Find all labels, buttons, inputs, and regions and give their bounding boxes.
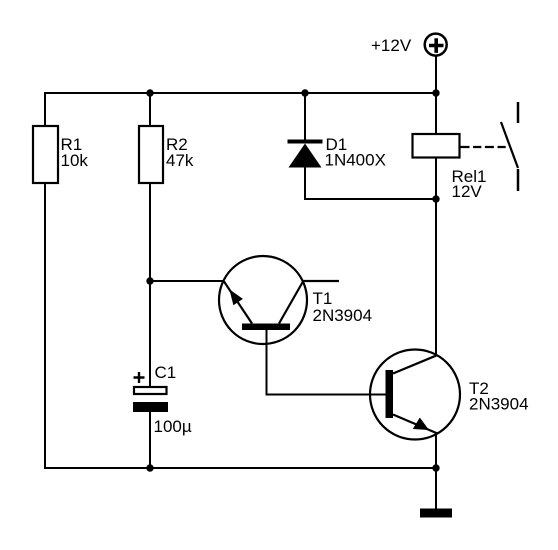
wire T2 emitter to ground	[435, 433, 437, 509]
wire R1 bottom to bottom-left corner	[44, 184, 46, 469]
switch blade	[501, 122, 518, 168]
svg-text:47k: 47k	[166, 151, 194, 170]
wire left branch down through R1 to bottom bus	[44, 92, 46, 126]
svg-text:10k: 10k	[61, 151, 89, 170]
wire T1 base to T2 base	[267, 330, 387, 395]
wire top bus to relay coil	[435, 93, 437, 134]
capacitor C1	[134, 387, 167, 394]
svg-text:+12V: +12V	[371, 36, 412, 55]
switch contact top terminal	[517, 102, 520, 123]
ground	[420, 509, 452, 518]
wire node A to T1 emitter	[150, 280, 224, 282]
svg-text:2N3904: 2N3904	[313, 306, 373, 325]
T2 emitter lead with arrow	[393, 415, 438, 434]
resistor R2	[139, 126, 163, 183]
wire bottom bus (ground rail)	[44, 467, 436, 469]
node D1 top junction	[301, 89, 308, 96]
wire R2 top	[149, 93, 151, 126]
T2 base bar	[386, 370, 394, 418]
node C1/ground bus junction	[146, 464, 153, 471]
transistor T2	[370, 350, 460, 440]
switch contact bottom terminal	[517, 169, 520, 191]
node relay/diode junction	[432, 195, 439, 202]
node R2 top junction	[146, 89, 153, 96]
T1 base bar	[242, 324, 290, 331]
wire C1 bottom to bottom bus	[149, 412, 151, 468]
wire T1 collector stub	[302, 280, 339, 282]
relay coil Rel1	[413, 134, 460, 158]
diode D1	[288, 140, 323, 144]
wire R2 bottom to node A	[149, 184, 151, 387]
node +12V top junction	[432, 89, 439, 96]
T2 collector lead	[393, 355, 437, 373]
wire top bus (+12V rail)	[45, 92, 436, 94]
svg-text:1N400X: 1N400X	[325, 151, 386, 170]
node T2 emitter / bottom bus junction	[432, 464, 439, 471]
wire +12V stem	[435, 56, 437, 93]
T1 collector lead	[279, 282, 303, 324]
resistor R1	[33, 126, 58, 183]
wire dashed relay actuator link	[461, 146, 507, 148]
wire D1 cathode to top bus	[304, 93, 306, 141]
svg-text:C1: C1	[155, 363, 177, 382]
T1 emitter lead with arrow	[224, 282, 252, 324]
wire D1 anode to relay bottom node	[304, 198, 436, 200]
svg-text:12V: 12V	[452, 182, 483, 201]
node A junction (R2/C1/T1)	[146, 277, 153, 284]
C1 plus polarity mark	[134, 372, 145, 383]
svg-text:100µ: 100µ	[154, 417, 192, 436]
wire relay coil bottom to T2 collector	[435, 158, 437, 356]
transistor T1	[219, 256, 307, 344]
svg-text:2N3904: 2N3904	[469, 395, 529, 414]
wire D1 anode down	[304, 167, 306, 200]
